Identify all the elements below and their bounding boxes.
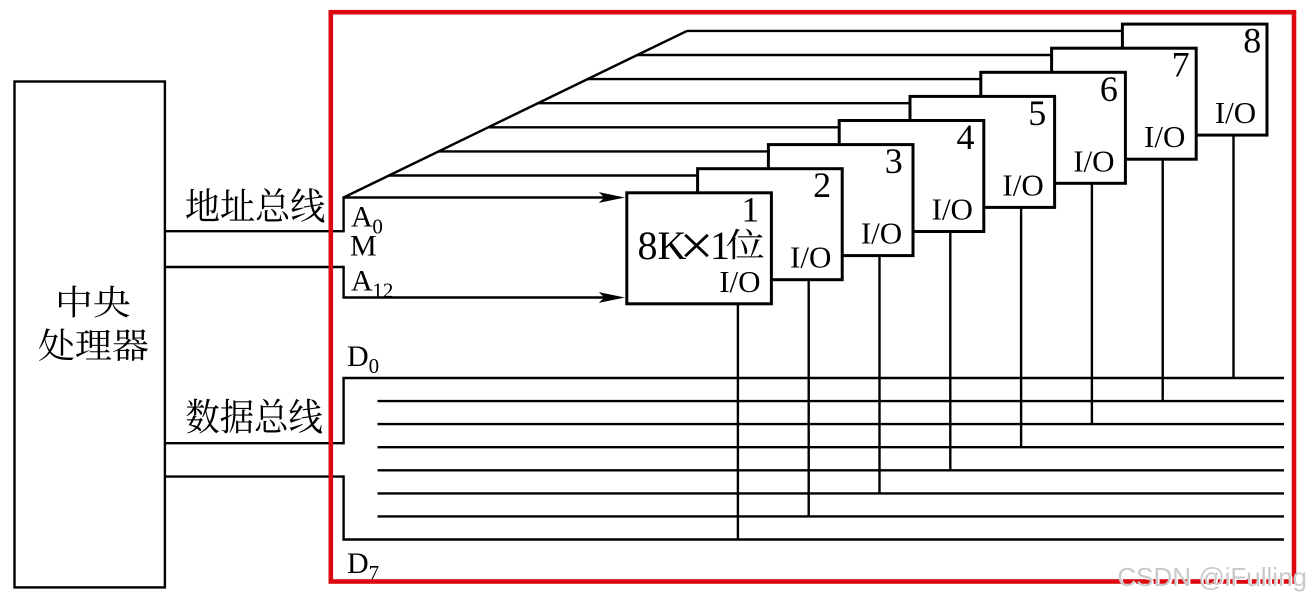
chip 1 I/O pin label	[719, 264, 760, 299]
address branch wire to chip 3	[439, 150, 768, 152]
svg-text:2: 2	[813, 165, 831, 205]
data line D2 (net to chip 6)	[378, 423, 1285, 425]
data line D1 (net to chip 7)	[378, 400, 1285, 402]
address bracket vertical upper	[342, 198, 344, 233]
data bus wire lower (CPU to bracket)	[164, 475, 344, 477]
chip 3 I/O pin label	[861, 216, 902, 251]
svg-text:A: A	[351, 264, 373, 297]
data bus label 数据总线	[187, 398, 322, 433]
pin label M	[350, 230, 377, 263]
svg-text:8: 8	[1243, 21, 1261, 61]
svg-text:6: 6	[1100, 69, 1118, 109]
memory chip 4 box	[839, 121, 984, 232]
I/O wire from chip 6 down to data line D2	[1091, 183, 1093, 424]
chip 6 number label	[1100, 69, 1118, 109]
CPU label line 1: 中央	[59, 286, 129, 318]
watermark CSDN @iFulling	[1117, 562, 1308, 594]
chip 5 I/O pin label	[1002, 167, 1043, 202]
svg-text:I/O: I/O	[1002, 167, 1043, 202]
wire A0 with arrowhead into chip 1	[342, 192, 624, 203]
red highlight frame	[331, 12, 1294, 581]
I/O wire from chip 4 down to data line D4	[949, 231, 951, 470]
chip 5 number label	[1028, 93, 1046, 133]
label D7	[347, 547, 379, 585]
address branch wire to chip 8	[687, 30, 1122, 32]
svg-text:D: D	[347, 340, 369, 373]
data line D5 (net to chip 3)	[378, 492, 1285, 494]
svg-text:I/O: I/O	[790, 240, 831, 275]
data bracket vertical upper	[342, 378, 344, 444]
data line D4 (net to chip 4)	[378, 469, 1285, 471]
svg-text:A: A	[351, 200, 373, 233]
address branch wire to chip 5	[538, 102, 910, 104]
I/O wire from chip 7 down to data line D1	[1161, 159, 1163, 401]
chip 7 I/O pin label	[1144, 119, 1185, 154]
address bus wire upper (CPU to bracket)	[164, 230, 344, 232]
svg-text:5: 5	[1028, 93, 1046, 133]
I/O wire from chip 3 down to data line D5	[878, 255, 880, 493]
chip 4 I/O pin label	[932, 192, 973, 227]
chip 8 I/O pin label	[1215, 95, 1256, 130]
svg-text:I/O: I/O	[1215, 95, 1256, 130]
address branch wire to chip 4	[488, 126, 838, 128]
svg-text:1: 1	[710, 223, 730, 268]
I/O wire from chip 8 down to data line D0	[1232, 135, 1234, 378]
memory chip 3 box	[768, 145, 913, 256]
svg-text:M: M	[350, 230, 377, 263]
svg-text:D: D	[347, 547, 369, 580]
address bracket vertical lower	[342, 266, 344, 298]
chip 7 number label	[1172, 45, 1190, 85]
data line D6 (net to chip 2)	[378, 515, 1285, 517]
address bus wire lower (CPU to bracket)	[164, 266, 344, 268]
data line D3 (net to chip 5)	[378, 446, 1285, 448]
CPU label line 2: 处理器	[39, 329, 148, 362]
svg-text:CSDN @iFulling: CSDN @iFulling	[1117, 562, 1307, 592]
data bracket vertical lower	[342, 475, 344, 539]
chip 4 number label	[957, 117, 975, 157]
svg-text:4: 4	[957, 117, 975, 157]
CPU box 中央处理器	[15, 82, 165, 588]
pin label A12	[351, 264, 393, 302]
chip 2 number label	[813, 165, 831, 205]
memory chip 2 box	[698, 169, 843, 280]
svg-text:I/O: I/O	[932, 192, 973, 227]
svg-text:I/O: I/O	[1144, 119, 1185, 154]
svg-text:3: 3	[885, 141, 903, 181]
svg-text:12: 12	[372, 279, 393, 303]
I/O wire from chip 1 down to data line D7	[737, 303, 739, 539]
address bus label 地址总线	[186, 188, 325, 223]
svg-text:I/O: I/O	[861, 216, 902, 251]
chip 2 I/O pin label	[790, 240, 831, 275]
chip 1 capacity label 8K×1位	[638, 223, 764, 268]
svg-text:8K: 8K	[638, 223, 687, 268]
address branch wire to chip 2	[389, 174, 697, 176]
data line D7 (net to chip 1)	[342, 538, 1284, 540]
svg-text:I/O: I/O	[1073, 143, 1114, 178]
chip 3 number label	[885, 141, 903, 181]
address branch wire to chip 7	[637, 54, 1051, 56]
label D0	[347, 340, 379, 378]
memory chip 7 box	[1052, 48, 1197, 159]
svg-text:I/O: I/O	[719, 264, 760, 299]
I/O wire from chip 5 down to data line D3	[1020, 207, 1022, 447]
data line D0 (net to chip 8)	[342, 377, 1284, 379]
address branch wire to chip 6	[588, 78, 981, 80]
memory chip 8 box	[1122, 24, 1267, 135]
chip 8 number label	[1243, 21, 1261, 61]
pin label A0	[351, 200, 383, 238]
svg-text:7: 7	[1172, 45, 1190, 85]
wire A12 with arrowhead into chip 1	[342, 292, 624, 303]
I/O wire from chip 2 down to data line D6	[808, 279, 810, 516]
chip 6 I/O pin label	[1073, 143, 1114, 178]
svg-text:1: 1	[741, 189, 759, 229]
memory chip 6 box	[981, 72, 1126, 183]
svg-text:0: 0	[369, 354, 380, 378]
address fan diagonal	[344, 31, 687, 198]
data bus wire upper (CPU to bracket)	[164, 442, 344, 444]
memory chip 5 box	[910, 96, 1055, 207]
chip 1 number label	[741, 189, 759, 229]
memory chip 1 box	[627, 193, 772, 304]
